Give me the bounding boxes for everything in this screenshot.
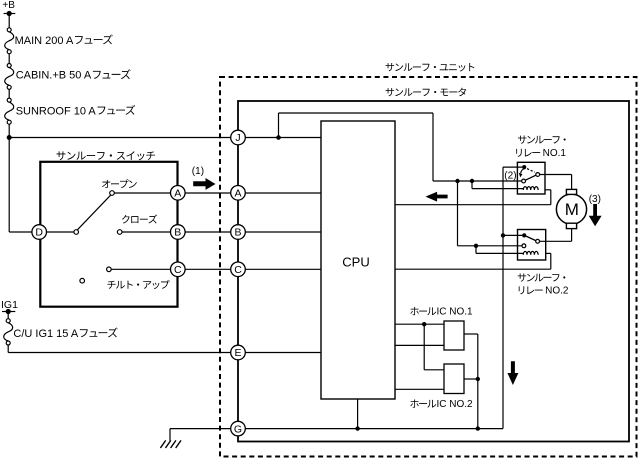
svg-text:C: C bbox=[174, 264, 182, 276]
svg-text:A: A bbox=[234, 188, 241, 200]
svg-text:IC NO.1: IC NO.1 bbox=[437, 307, 474, 318]
svg-text:(2): (2) bbox=[504, 170, 516, 181]
svg-text:B: B bbox=[234, 227, 241, 239]
svg-text:CABIN.+B 50 A: CABIN.+B 50 A bbox=[16, 70, 92, 82]
svg-text:C: C bbox=[234, 264, 242, 276]
svg-text:NO.1: NO.1 bbox=[543, 148, 567, 159]
svg-text:+B: +B bbox=[2, 0, 15, 11]
svg-text:(1): (1) bbox=[192, 166, 204, 177]
svg-text:CPU: CPU bbox=[342, 255, 369, 270]
svg-text:MAIN 200 A: MAIN 200 A bbox=[15, 35, 74, 47]
svg-text:(3): (3) bbox=[589, 194, 601, 205]
svg-text:NO.2: NO.2 bbox=[545, 286, 569, 297]
svg-text:E: E bbox=[234, 347, 241, 359]
svg-text:IG1: IG1 bbox=[1, 299, 18, 311]
svg-text:A: A bbox=[174, 188, 181, 200]
svg-text:IC NO.2: IC NO.2 bbox=[437, 399, 474, 410]
svg-text:B: B bbox=[174, 227, 181, 239]
svg-text:M: M bbox=[565, 200, 579, 219]
svg-text:D: D bbox=[35, 227, 43, 239]
svg-text:G: G bbox=[234, 423, 242, 435]
svg-text:J: J bbox=[235, 132, 240, 144]
svg-text:SUNROOF 10 A: SUNROOF 10 A bbox=[16, 105, 97, 117]
svg-text:C/U IG1 15 A: C/U IG1 15 A bbox=[13, 328, 78, 340]
